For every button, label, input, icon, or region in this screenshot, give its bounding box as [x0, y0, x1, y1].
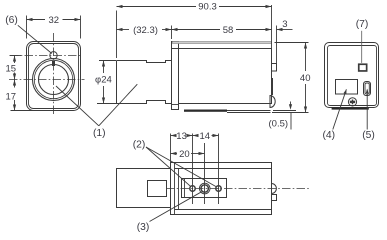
rear view foot bar — [332, 107, 369, 109]
lens middle circle — [34, 60, 72, 98]
bottom view side rail line bottom — [175, 209, 272, 211]
svg-text:32: 32 — [49, 15, 60, 26]
dimension 58 line — [172, 29, 221, 31]
svg-text:(3): (3) — [137, 222, 150, 233]
lens inner circle — [39, 65, 69, 95]
dimension 40 arrows — [304, 43, 307, 49]
dimension 32 line — [27, 19, 46, 21]
front view lens horizontal centerline — [9, 79, 85, 81]
bottom dims extension hole1 — [192, 134, 194, 205]
svg-text:(1): (1) — [93, 128, 106, 139]
front view screw-hole horizontal centerline — [10, 55, 82, 57]
lens outer circle — [33, 59, 75, 101]
dimension 15/17 line — [14, 56, 16, 64]
svg-text:17: 17 — [6, 92, 17, 103]
svg-text:13: 13 — [176, 131, 187, 142]
bottom view mounting hole 1 — [190, 186, 195, 191]
bottom view center hole inner — [201, 185, 208, 192]
dimension 15 arrows — [13, 56, 16, 62]
dimension 90.3 extension left — [116, 11, 118, 59]
svg-text:14: 14 — [200, 131, 211, 142]
dimension 15/17 tick at case bottom — [11, 110, 35, 112]
svg-text:3: 3 — [282, 19, 287, 30]
phi24 dimension line — [103, 61, 105, 74]
rear view mini connector inner — [365, 83, 369, 94]
dimension (0.5) down arrow — [290, 102, 292, 109]
side view top gray strip — [173, 42, 272, 44]
dimension 15/17 tick at screw hole level — [10, 55, 22, 57]
label (4) leader — [333, 89, 347, 129]
rear view switch square — [359, 64, 367, 71]
phi24 arrows — [102, 61, 105, 67]
svg-text:40: 40 — [300, 73, 311, 84]
svg-text:(0.5): (0.5) — [269, 118, 289, 129]
bottom view lens rectangle — [117, 169, 171, 208]
dimension 90.3 arrows — [117, 5, 123, 8]
dimension (32.3) arrows — [117, 28, 123, 31]
svg-text:(6): (6) — [5, 15, 18, 26]
dimension 58 arrows — [172, 28, 178, 31]
label (1) leader from front lens — [56, 86, 99, 126]
front view inner case line — [29, 44, 79, 109]
front view screw hole — [50, 52, 57, 59]
label (6) leader line — [18, 25, 52, 53]
dimension 40 bottom extension — [272, 112, 309, 114]
dimension 20 arrows — [171, 152, 177, 155]
side view rear bump — [272, 64, 277, 72]
dimension 40 top extension — [275, 42, 309, 44]
side view rear panel edge — [276, 26, 278, 64]
svg-text:φ24: φ24 — [95, 75, 112, 86]
dimension 40 line — [305, 43, 307, 72]
svg-text:(4): (4) — [323, 130, 336, 141]
rear view connector rectangle — [336, 80, 358, 95]
rear view screw head — [348, 98, 356, 106]
dimension 20 line — [171, 153, 178, 155]
side view body top line across plate — [172, 48, 179, 50]
side view bottom bar thin — [227, 110, 271, 111]
side view bottom bar thick — [184, 110, 227, 112]
side view lens barrel outline — [117, 61, 172, 104]
label (2) leader to hole 2 — [146, 147, 217, 187]
svg-text:(5): (5) — [362, 130, 375, 141]
dimension 14 line — [193, 135, 199, 137]
dimension 14 arrows — [193, 134, 199, 137]
dimension 13 arrows — [171, 134, 177, 137]
svg-text:(2): (2) — [133, 140, 146, 151]
label (3) leader — [150, 192, 202, 222]
dimension 32 arrows — [27, 18, 33, 21]
svg-text:15: 15 — [6, 64, 17, 75]
dimension (32.3) line — [117, 29, 130, 31]
bottom view recess rectangle — [182, 179, 227, 198]
dimension 13 line — [171, 135, 176, 137]
dimension 3 line and arrow — [277, 29, 293, 31]
bottom view round connector arc — [272, 184, 277, 194]
bottom view lens square — [148, 181, 167, 197]
front view vertical centerline — [53, 33, 55, 116]
bottom view side rail line top — [175, 168, 272, 170]
svg-text:58: 58 — [223, 25, 234, 36]
bottom dims extension center hole — [204, 143, 206, 204]
label (5) leader — [366, 90, 368, 130]
rear view inner case line — [328, 46, 377, 106]
rear view mini connector outer — [364, 82, 371, 96]
bottom view body — [171, 163, 272, 215]
dimension (32.3) extension — [171, 26, 173, 40]
side view front plate inner line — [172, 104, 179, 106]
label (7) leader — [361, 31, 363, 63]
bottom dims extension front — [170, 134, 172, 163]
bottom view center hole outer — [199, 183, 210, 194]
side view front plate — [172, 42, 179, 110]
svg-text:(32.3): (32.3) — [133, 25, 158, 36]
side view round connector arc — [270, 96, 275, 108]
bottom view mounting hole 2 — [216, 186, 221, 191]
dimension 17 arrows — [13, 80, 16, 86]
dimension (0.5) bar extension — [273, 110, 296, 111]
bottom view centerline — [166, 188, 309, 190]
dimension 32 extension lines — [26, 16, 28, 39]
phi24 extension lines — [99, 60, 116, 62]
bottom view rear bump — [272, 195, 277, 201]
lens index mark — [52, 61, 55, 66]
dimension 90.3 extension right and body back edge — [271, 5, 273, 49]
bottom view recess inner line — [184, 179, 186, 198]
side view rear connector silhouette — [271, 78, 273, 95]
label (2) leader to hole 1 — [146, 147, 191, 187]
front view outer case — [27, 42, 81, 111]
svg-text:20: 20 — [179, 149, 190, 160]
bottom view plate line 1 — [174, 163, 176, 215]
bottom dims extension hole2 — [218, 134, 220, 205]
rear view outer case — [325, 43, 379, 108]
label (1) leader from side lens — [99, 84, 138, 126]
bottom view plate line 2 — [178, 169, 180, 210]
side view body — [179, 49, 272, 104]
dimension 90.3 line — [117, 6, 197, 8]
svg-text:(7): (7) — [356, 19, 369, 30]
dimension (0.5) leader — [290, 113, 292, 130]
svg-text:90.3: 90.3 — [198, 1, 217, 12]
